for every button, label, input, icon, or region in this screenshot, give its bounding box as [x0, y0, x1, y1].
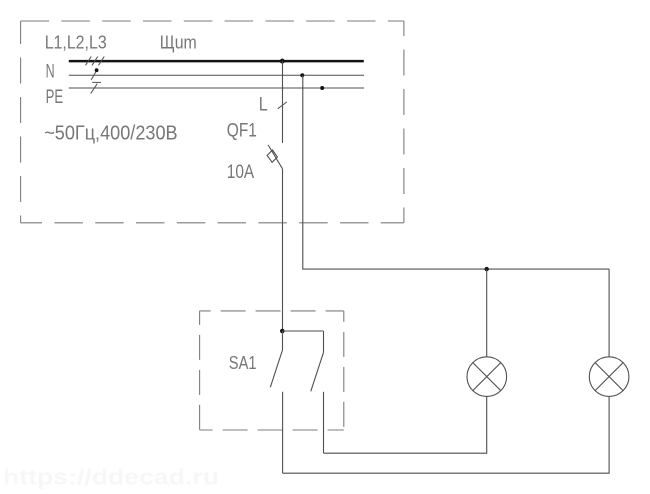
switch enclosure box SA1 [200, 311, 344, 430]
panel enclosure box (Щит) [21, 21, 404, 223]
svg-text:10А: 10А [227, 161, 254, 183]
N conductor mark (slash with dot) [91, 70, 97, 80]
switch SA1 pole 1 (left) [282, 331, 284, 350]
svg-text:QF1: QF1 [227, 119, 257, 141]
PE conductor mark (slash with bar) [91, 84, 98, 94]
node: PE tap on bus [320, 86, 324, 90]
bus N [69, 74, 364, 76]
bus PE [69, 87, 364, 89]
svg-text:~50Гц,400/230В: ~50Гц,400/230В [44, 122, 177, 144]
svg-text:N: N [46, 61, 55, 83]
svg-text:L: L [259, 95, 268, 116]
wire: pole 1 to lamp HL2 bottom [283, 396, 609, 473]
svg-text:Щum: Щum [160, 31, 197, 52]
phase-count marks (3 slashes) on L1,L2,L3 bus [86, 57, 105, 66]
wire: phase drop to breaker [282, 61, 284, 143]
svg-text:L1,L2,L3: L1,L2,L3 [45, 32, 107, 52]
svg-text:PE: PE [46, 86, 64, 108]
wire: breaker output down to switch box [282, 169, 284, 331]
circuit breaker QF1 (blade with square) [268, 145, 282, 169]
wire: neutral run (down then right to lamps) [303, 75, 609, 269]
wire: pole 2 to lamp HL1 bottom [324, 396, 487, 453]
bus L1,L2,L3 (three-phase) [69, 60, 364, 63]
wire: neutral branch to lamp HL1 [486, 269, 488, 357]
lamp HL1 [467, 357, 507, 397]
node: N tap on bus [300, 73, 304, 77]
node: phase tap on bus [280, 59, 285, 64]
lamp HL2 [589, 357, 629, 397]
svg-text:SA1: SA1 [229, 352, 257, 373]
switch SA1 pole 2 (right) [283, 330, 324, 332]
phase tick on wire [278, 102, 287, 109]
wire: neutral branch to lamp HL2 [608, 269, 610, 357]
node: lamp HL1 branch on neutral run [485, 267, 489, 271]
svg-text:https://ddecad.ru: https://ddecad.ru [3, 465, 219, 490]
node: switch input junction [280, 329, 285, 334]
